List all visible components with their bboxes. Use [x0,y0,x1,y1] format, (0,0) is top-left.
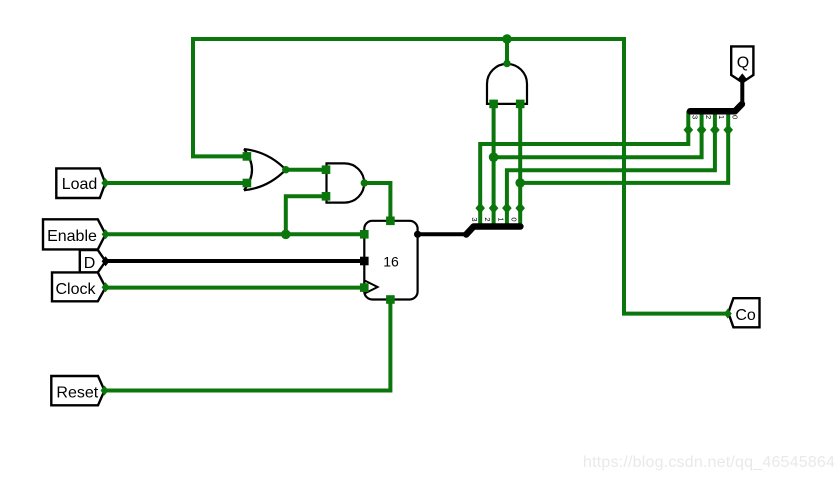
wire feedback loop: OR input to top rail to Co column [193,39,728,314]
port square AND3 input 1 [489,100,498,109]
diamond splitter2 bit2 [697,124,707,135]
port dot AND3 output [503,60,510,67]
wire bit0 row [520,111,728,183]
svg-text:Load: Load [62,176,98,193]
svg-text:Co: Co [735,307,756,324]
and-gate G2 [327,163,365,202]
wire Enable branch to AND lower input [286,196,327,234]
splitter SP2 trunk [690,104,742,111]
svg-text:2: 2 [483,217,492,221]
svg-text:1: 1 [717,115,726,119]
svg-text:Reset: Reset [56,385,98,402]
port square counter D [360,257,369,266]
junction dot top rail / AND3 output [502,34,512,44]
wire OR output to AND input [286,168,327,172]
and-gate G3 (top, north facing) [487,64,527,104]
diamond D tip [102,256,110,266]
diamond splitter2 bit0 [723,124,733,135]
wire Clock to counter [106,286,365,290]
port dot OR output [282,166,289,173]
wire top AND output stub [505,39,509,64]
diamond splitter1 bit3 [475,203,485,214]
wire AND output to counter load input [364,183,390,221]
port square counter reset (bottom) [386,295,395,304]
junction dot bit2 row [489,152,499,162]
pin Q (output, south facing) [731,46,753,82]
svg-text:Q: Q [737,54,749,71]
diamond Q tip [738,73,746,83]
pin Co (output, west facing) [728,298,759,327]
pin D [80,250,106,272]
diamond splitter1 bit2 [489,203,499,214]
svg-text:Enable: Enable [47,228,97,245]
junction dot bit0 row [515,178,525,188]
port square AND3 input 2 [516,100,525,109]
wire splitter1 bit2 column [492,104,496,227]
wire Load to OR input [105,181,246,185]
wire counter output bus [418,232,467,236]
wire bit1 row [507,111,715,226]
diamond Clock tip [102,282,110,292]
port square OR input 1 [243,152,252,161]
wire Reset to counter bottom [105,300,391,391]
splitter SP1 trunk [466,227,520,235]
diamond Load tip [101,178,109,188]
port dot AND output [361,179,368,186]
svg-text:3: 3 [691,115,700,119]
svg-text:1: 1 [496,217,505,221]
diamond splitter1 bit1 [502,203,512,214]
wire Q pin bus [740,78,744,104]
diamond splitter2 bit1 [710,124,720,135]
svg-text:2: 2 [704,115,713,119]
junction dot Enable branch [281,230,291,240]
svg-text:16: 16 [383,254,399,270]
diamond Enable tip [102,229,110,239]
or-gate G1 [244,149,286,190]
svg-text:0: 0 [731,115,740,119]
diamond Reset tip [101,386,109,396]
port square AND input 1 [322,165,331,174]
port square counter enable [360,230,369,239]
watermark [583,454,833,472]
wire D bus to counter [106,259,365,263]
svg-text:Clock: Clock [55,281,96,298]
counter U1 [364,221,417,300]
diamond splitter2 bit3 [684,124,694,135]
svg-text:3: 3 [470,217,479,221]
svg-text:D: D [84,255,96,272]
wire bit3 row [480,111,688,226]
diamond splitter1 bit0 [515,203,525,214]
port square OR input 2 [243,179,252,188]
pin Clock [52,272,106,301]
pin Load [56,168,105,198]
pin Reset [51,376,104,405]
wire splitter1 bit0 column [518,104,522,227]
port square counter clock [360,283,369,292]
wire bit2 row [494,111,702,157]
diamond Co tip [724,309,732,319]
port dot counter output [414,231,421,238]
port square AND input 2 [322,192,331,201]
svg-text:0: 0 [510,217,519,221]
pin Enable [43,219,106,249]
port square counter load (top) [386,217,395,226]
wire Enable to counter [106,232,365,236]
